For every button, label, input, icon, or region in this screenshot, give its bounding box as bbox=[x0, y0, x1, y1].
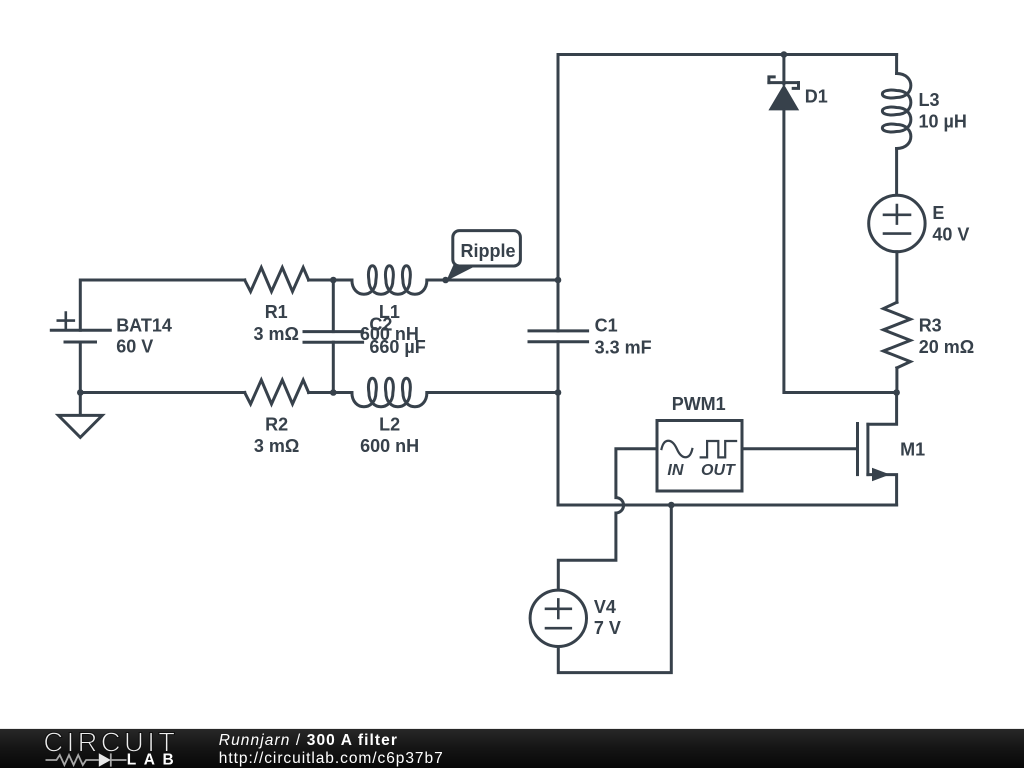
wire L3 to E bbox=[895, 149, 898, 196]
diode D1 (schottky, cathode up) bbox=[768, 55, 799, 111]
svg-text:V4: V4 bbox=[594, 597, 616, 617]
wire PWM1 OUT to M1 gate bbox=[742, 447, 858, 450]
capacitor C1 bbox=[529, 331, 588, 342]
inductor L1 bbox=[352, 266, 427, 295]
svg-text:BAT14: BAT14 bbox=[116, 315, 172, 335]
voltage source V4 bbox=[530, 590, 586, 646]
svg-text:R1: R1 bbox=[265, 302, 288, 322]
callout Ripple bbox=[446, 231, 520, 281]
svg-text:R3: R3 bbox=[919, 315, 942, 335]
wire R2 to L2 bbox=[309, 391, 352, 394]
svg-text:10 µH: 10 µH bbox=[919, 112, 967, 132]
svg-text:L2: L2 bbox=[379, 415, 400, 435]
svg-text:L3: L3 bbox=[919, 90, 940, 110]
wire C1 bottom to bottom rail corner bbox=[557, 342, 560, 505]
wire R1 to L1 bbox=[309, 279, 352, 282]
wire top rail bbox=[558, 53, 897, 56]
wire L2 to left rail bbox=[427, 391, 558, 394]
node C2 bottom junction bbox=[330, 389, 337, 396]
node Ripple junction bbox=[442, 277, 449, 284]
svg-text:LAB: LAB bbox=[127, 751, 181, 768]
node left rail / ripple wire junction bbox=[555, 277, 562, 284]
svg-text:600 nH: 600 nH bbox=[360, 436, 419, 456]
node D1 top junction bbox=[781, 51, 788, 58]
logo diode glyph bbox=[99, 753, 111, 767]
wire battery positive to R1 bbox=[80, 280, 244, 330]
wire V4 minus to bottom rail bbox=[558, 505, 671, 673]
svg-text:3 mΩ: 3 mΩ bbox=[254, 436, 299, 456]
inductor L2 bbox=[352, 378, 427, 407]
wire L1 to left rail bbox=[427, 279, 558, 282]
svg-text:3.3 mF: 3.3 mF bbox=[595, 337, 652, 357]
wire E to R3 bbox=[895, 252, 898, 303]
wire R3 to drain junction bbox=[895, 368, 898, 393]
svg-text:E: E bbox=[932, 203, 944, 223]
inductor L3 bbox=[882, 74, 911, 149]
node battery bottom junction bbox=[77, 389, 84, 396]
wire battery negative to bottom rail bbox=[79, 342, 82, 393]
wire left vertical rail top bbox=[557, 55, 560, 331]
svg-text:Ripple: Ripple bbox=[460, 241, 515, 261]
wire bottom rail bbox=[558, 504, 897, 507]
svg-text:40 V: 40 V bbox=[932, 224, 969, 244]
svg-text:R2: R2 bbox=[265, 415, 288, 435]
battery BAT14 bbox=[51, 313, 110, 342]
ground bbox=[58, 393, 102, 438]
logo circuit glyph bbox=[46, 753, 127, 766]
svg-text:7 V: 7 V bbox=[594, 618, 621, 638]
wire D1 anode down and right to drain junction bbox=[784, 110, 897, 392]
svg-text:M1: M1 bbox=[900, 439, 925, 459]
node C2 top junction bbox=[330, 277, 337, 284]
component PWM1 bbox=[657, 421, 742, 492]
capacitor C2 bbox=[304, 280, 363, 393]
svg-text:C2: C2 bbox=[369, 314, 392, 334]
svg-text:C1: C1 bbox=[595, 315, 618, 335]
resistor R1 bbox=[245, 268, 309, 292]
svg-text:OUT: OUT bbox=[701, 462, 736, 479]
wire PWM1 IN to V4 plus (with hop) bbox=[558, 449, 657, 590]
svg-text:PWM1: PWM1 bbox=[672, 394, 726, 414]
node drain junction bbox=[893, 389, 900, 396]
svg-text:Runnjarn / 300 A filter: Runnjarn / 300 A filter bbox=[219, 732, 398, 749]
svg-text:IN: IN bbox=[667, 462, 683, 479]
wire bottom-left rail to R2 bbox=[80, 391, 244, 394]
voltage source E bbox=[869, 195, 925, 251]
resistor R2 bbox=[245, 380, 309, 404]
svg-text:http://circuitlab.com/c6p37b7: http://circuitlab.com/c6p37b7 bbox=[219, 750, 444, 767]
wire top rail to L3 bbox=[895, 55, 898, 74]
footer bar bbox=[0, 729, 1024, 768]
svg-text:60 V: 60 V bbox=[116, 337, 153, 357]
node V4 minus junction bbox=[668, 502, 675, 509]
svg-text:20 mΩ: 20 mΩ bbox=[919, 337, 974, 357]
svg-text:3 mΩ: 3 mΩ bbox=[253, 324, 298, 344]
resistor R3 bbox=[883, 302, 910, 368]
transistor M1 (NMOS) bbox=[858, 393, 897, 506]
svg-text:660 µF: 660 µF bbox=[369, 337, 425, 357]
node left rail / L2 wire junction bbox=[555, 389, 562, 396]
svg-text:D1: D1 bbox=[805, 87, 828, 107]
